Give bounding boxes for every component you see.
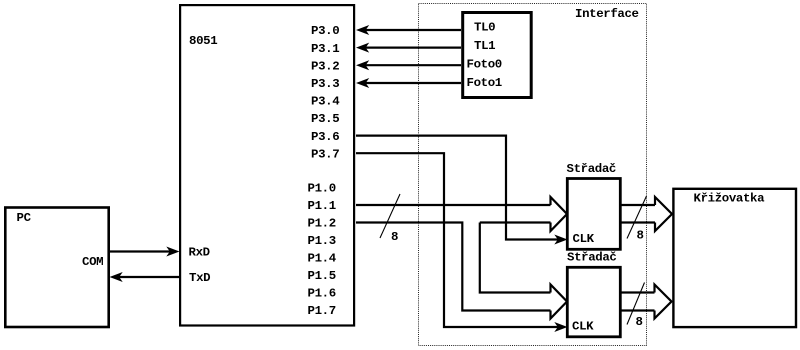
svg-text:P3.5: P3.5 (311, 112, 339, 126)
svg-text:Foto1: Foto1 (467, 76, 502, 90)
wire TxD to COM (117, 276, 180, 278)
wire TL1 to P3.1 (364, 46, 461, 48)
wire Foto1 to P3.3 (364, 82, 461, 84)
svg-text:Foto0: Foto0 (467, 58, 502, 72)
svg-text:P1.6: P1.6 (308, 287, 336, 301)
svg-text:TxD: TxD (189, 271, 210, 285)
hollow bus arrowhead into Křižovatka (upper) (655, 197, 672, 231)
svg-text:P1.2: P1.2 (308, 217, 336, 231)
bus slash U1 output (627, 196, 647, 239)
svg-text:P3.6: P3.6 (311, 130, 339, 144)
svg-text:P1.5: P1.5 (308, 269, 336, 283)
bus wire P1.1 (top edge) (356, 204, 551, 206)
arrowhead into P3.2 (356, 60, 369, 70)
svg-text:Střadač: Střadač (567, 251, 616, 265)
arrowhead into RxD (166, 247, 179, 257)
wire P3.7 to CLK of U2 (356, 153, 560, 327)
svg-text:P1.7: P1.7 (308, 304, 336, 318)
bus U2 to Křižovatka top edge (620, 291, 655, 293)
svg-text:P3.4: P3.4 (311, 95, 340, 109)
wire P3.6 to CLK of U1 (356, 136, 560, 240)
hollow bus arrowhead into Křižovatka (lower) (655, 285, 672, 319)
svg-text:TL1: TL1 (474, 39, 495, 53)
svg-text:PC: PC (17, 211, 32, 225)
wire Foto0 to P3.2 (364, 64, 461, 66)
arrowhead into CLK U1 (554, 235, 567, 245)
arrowhead into CLK U2 (554, 322, 567, 332)
bus U1 to Křižovatka bottom edge (620, 221, 655, 223)
svg-text:Křižovatka: Křižovatka (694, 192, 766, 206)
arrowhead into P3.3 (356, 78, 369, 88)
svg-text:CLK: CLK (572, 320, 594, 334)
svg-text:P3.1: P3.1 (311, 42, 339, 56)
wire TL0 to P3.0 (364, 29, 461, 31)
Křižovatka box (673, 189, 796, 327)
bus wire P1.2 (bottom edge, opens into branch) (356, 223, 551, 311)
svg-text:P1.4: P1.4 (308, 252, 337, 266)
bus U2 to Křižovatka bottom edge (620, 309, 655, 311)
bus wire P1.2 continuation after branch (480, 221, 551, 223)
hollow bus arrowhead into latch U2 (551, 285, 568, 319)
sensor box U3 (TL/Foto inputs) (463, 13, 532, 98)
svg-text:8: 8 (637, 229, 644, 243)
svg-text:RxD: RxD (189, 246, 210, 260)
svg-text:Střadač: Střadač (567, 162, 616, 176)
svg-text:CLK: CLK (573, 232, 595, 246)
hollow bus arrowhead into latch U1 (551, 197, 568, 231)
arrowhead into P3.1 (356, 43, 369, 53)
svg-text:8051: 8051 (189, 34, 217, 48)
svg-text:P1.1: P1.1 (308, 199, 336, 213)
svg-text:TL0: TL0 (474, 21, 495, 35)
bus U1 to Křižovatka top edge (620, 204, 655, 206)
8051 box (180, 5, 354, 325)
svg-text:P1.0: P1.0 (308, 182, 336, 196)
svg-text:P1.3: P1.3 (308, 234, 336, 248)
svg-text:P3.7: P3.7 (311, 147, 339, 161)
bus slash U2 output (627, 283, 645, 325)
svg-text:8: 8 (636, 315, 643, 329)
svg-text:8: 8 (391, 230, 398, 244)
arrowhead into P3.0 (356, 25, 369, 35)
svg-text:P3.3: P3.3 (311, 77, 339, 91)
arrowhead into COM (110, 272, 123, 282)
latch U2 box (567, 267, 620, 337)
wire COM to RxD (110, 250, 172, 252)
interface dashed box (419, 4, 647, 346)
PC box (5, 208, 108, 328)
svg-text:COM: COM (82, 255, 103, 269)
latch U1 box (567, 179, 620, 250)
svg-text:P3.0: P3.0 (311, 24, 339, 38)
svg-text:Interface: Interface (575, 7, 639, 21)
svg-text:P3.2: P3.2 (311, 59, 339, 73)
bus slash on P1 bus (380, 194, 400, 238)
bus branch inner edge to latch U2 (480, 223, 551, 293)
